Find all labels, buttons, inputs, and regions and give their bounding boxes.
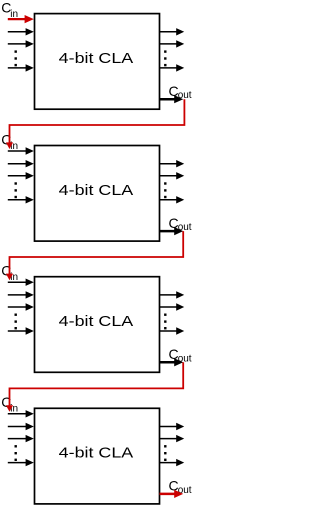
operand input arrow U3 row2 [8,291,34,298]
sum output arrow U4 row3 [160,435,185,442]
svg-text:4-bit CLA: 4-bit CLA [59,313,134,330]
Cout output arrow U4 (red, final carry-out) [160,490,184,498]
carry arrowhead into U3 Cin [6,274,13,281]
operand input arrow U1 row4 [8,64,34,71]
sum output arrow U2 row3 [160,172,185,179]
Cout output arrow U2 (bold) [160,227,184,235]
operand input arrow U2 row2 [8,160,34,167]
carry arrowhead into U2 Cin [6,142,13,149]
label U1 Cout [169,83,192,101]
operand input arrow U3 row4 [8,327,34,334]
4-bit CLA block U4 box [35,408,160,504]
Cin input arrow U4 [8,410,34,417]
input ellipsis dots U2 [15,182,17,198]
output ellipsis dots U2 [164,182,166,198]
sum output arrow U4 row4 [160,459,185,466]
sum output arrow U2 row4 [160,196,185,203]
input ellipsis dots U4 [15,445,17,461]
sum output arrow U1 row4 [160,64,185,71]
4-bit CLA block U2 box [35,146,160,242]
carry wire U3 Cout to U4 Cin [10,362,184,409]
label U2 Cin [1,131,18,151]
sum output arrow U3 row2 [160,291,185,298]
operand input arrow U2 row3 [8,172,34,179]
Cout output arrow U1 (bold) [160,95,184,103]
sum output arrow U4 row2 [160,423,185,430]
Cin input arrow U1 (red, external carry-in) [8,15,34,23]
label U2 Cout [169,215,192,233]
operand input arrow U4 row4 [8,459,34,466]
label U1 Cin [1,0,18,20]
4-bit CLA block U1 box [35,14,160,110]
input ellipsis dots U3 [15,314,17,330]
label U3 Cin [1,263,18,283]
output ellipsis dots U4 [164,445,166,461]
sum output arrow U2 row2 [160,160,185,167]
sum output arrow U1 row2 [160,28,185,35]
Cout output arrow U3 (bold) [160,358,184,366]
operand input arrow U2 row4 [8,196,34,203]
label U4 Cin [1,394,18,414]
carry arrowhead into U4 Cin [6,405,13,412]
carry wire U2 Cout to U3 Cin [10,231,184,277]
operand input arrow U1 row3 [8,40,34,47]
Cin input arrow U2 [8,147,34,154]
operand input arrow U3 row3 [8,303,34,310]
input ellipsis dots U1 [15,50,17,66]
operand input arrow U1 row2 [8,28,34,35]
carry wire U1 Cout to U2 Cin [10,99,185,146]
operand input arrow U4 row3 [8,435,34,442]
label U4 Cout [169,478,192,496]
output ellipsis dots U1 [164,50,166,66]
sum output arrow U1 row3 [160,40,185,47]
4-bit CLA block U3 box [35,277,160,373]
sum output arrow U3 row3 [160,303,185,310]
svg-text:4-bit CLA: 4-bit CLA [59,182,134,199]
sum output arrow U3 row4 [160,327,185,334]
operand input arrow U4 row2 [8,423,34,430]
output ellipsis dots U3 [164,314,166,330]
Cin input arrow U3 [8,279,34,286]
svg-text:4-bit CLA: 4-bit CLA [59,445,134,462]
svg-text:4-bit CLA: 4-bit CLA [59,50,134,67]
label U3 Cout [169,346,192,364]
